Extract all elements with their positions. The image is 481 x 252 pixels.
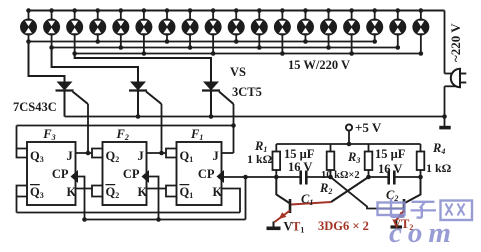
svg-text:16 V: 16 V (288, 160, 312, 174)
svg-text:15 W/220 V: 15 W/220 V (288, 58, 350, 72)
svg-text:K: K (213, 185, 223, 199)
svg-text:15 μF: 15 μF (284, 147, 315, 161)
svg-text:J: J (138, 149, 144, 163)
svg-text:10 kΩ×2: 10 kΩ×2 (321, 170, 360, 181)
svg-text:1 kΩ: 1 kΩ (426, 161, 452, 175)
svg-text:J: J (213, 149, 219, 163)
svg-text:3DG6 × 2: 3DG6 × 2 (318, 219, 369, 233)
svg-text:com: com (389, 217, 457, 247)
svg-text:15 μF: 15 μF (375, 147, 406, 161)
svg-text:~220 V: ~220 V (448, 23, 463, 62)
svg-text:CP: CP (123, 167, 140, 181)
svg-text:16 V: 16 V (378, 162, 402, 176)
svg-text:+5 V: +5 V (355, 120, 382, 135)
svg-text:K: K (67, 185, 77, 199)
svg-text:K: K (138, 185, 148, 199)
svg-text:7CS43C: 7CS43C (13, 100, 57, 114)
svg-text:VS: VS (230, 65, 246, 79)
svg-text:1 kΩ: 1 kΩ (247, 152, 273, 166)
svg-text:CP: CP (198, 167, 215, 181)
svg-text:J: J (67, 149, 73, 163)
svg-text:CP: CP (52, 167, 69, 181)
svg-text:3CT5: 3CT5 (232, 85, 262, 99)
